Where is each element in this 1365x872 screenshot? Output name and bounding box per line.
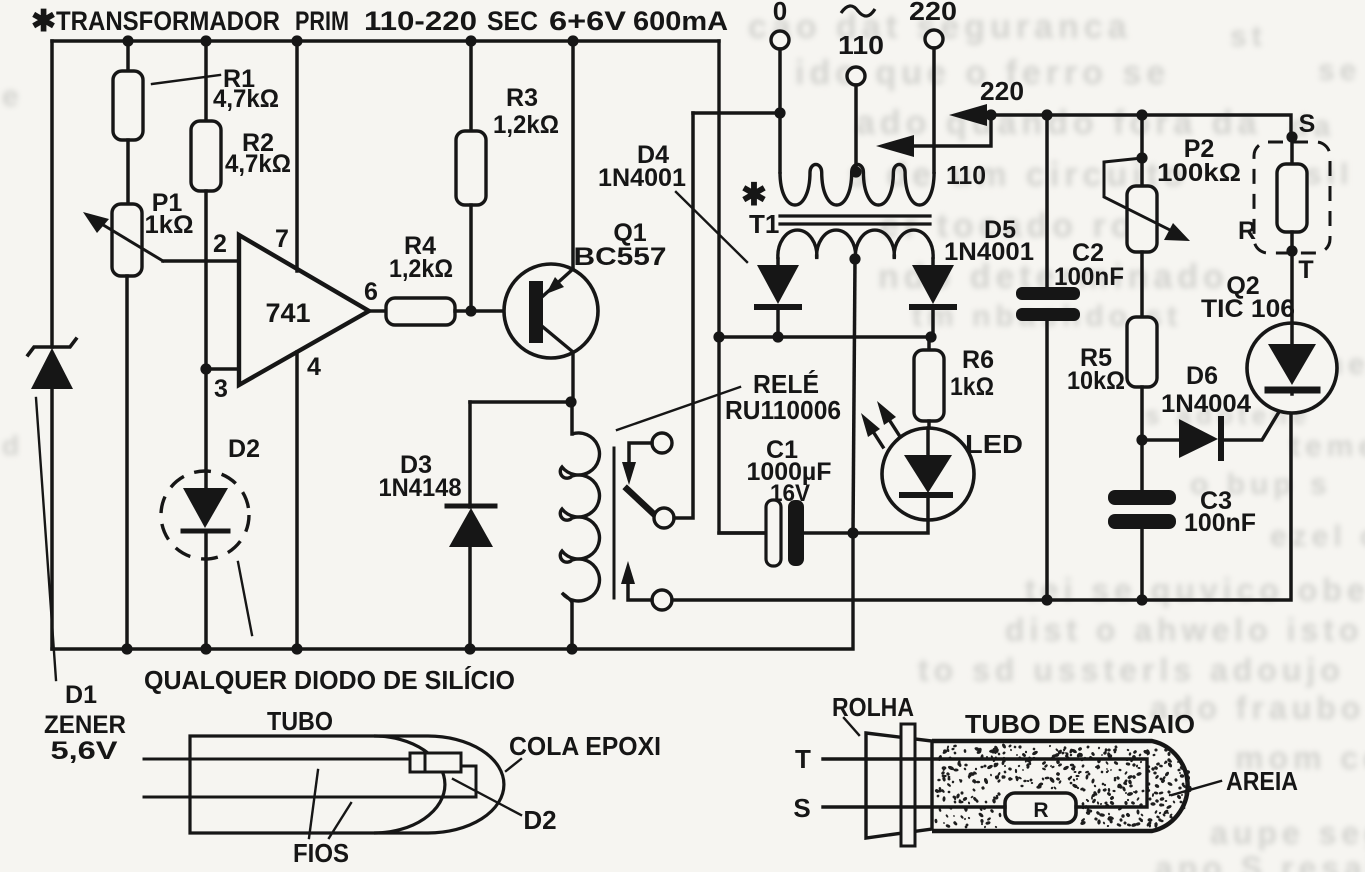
- wire S into tube: [823, 805, 1005, 808]
- svg-text:S: S: [793, 793, 810, 823]
- wire T into tube: [823, 759, 1147, 807]
- svg-text:RU110006: RU110006: [725, 395, 841, 425]
- relay contact common: [654, 508, 674, 528]
- cork (rolha): [866, 733, 932, 838]
- svg-text:100kΩ: 100kΩ: [1157, 159, 1241, 187]
- transformer T1 terminal 220: [925, 30, 943, 48]
- wire: left branch (D1) bottom: [50, 389, 54, 649]
- op-amp U1 741: [239, 235, 369, 385]
- relay contact top: [652, 433, 672, 453]
- wire: left branch (D1) top: [50, 41, 54, 347]
- SCR Q2 TIC106: [1247, 323, 1337, 413]
- svg-text:QUALQUER DIODO DE SILÍCIO: QUALQUER DIODO DE SILÍCIO: [144, 665, 515, 695]
- relay armature bar: [613, 448, 616, 598]
- capacitor C2 100nF: [1045, 115, 1049, 292]
- wire: +V down to rectifier output node: [719, 41, 766, 533]
- relay blade: [627, 489, 658, 518]
- transformer T1 terminal 0: [771, 31, 789, 49]
- svg-text:6+6V: 6+6V: [549, 6, 626, 36]
- diode D3 1N4148: [470, 400, 571, 404]
- svg-text:R3: R3: [506, 84, 538, 112]
- svg-text:S: S: [1299, 110, 1316, 138]
- title: transformer note: [31, 5, 728, 38]
- Q1 emitter: [543, 269, 573, 296]
- resistor R2: [204, 41, 208, 121]
- svg-text:110-220: 110-220: [364, 6, 477, 36]
- decorative bleed-through (not labelled components): [748, 8, 1132, 47]
- node S: [1286, 131, 1297, 142]
- test tube: outline: [932, 741, 1188, 831]
- svg-text:4,7kΩ: 4,7kΩ: [225, 150, 291, 178]
- svg-text:1N4001: 1N4001: [598, 164, 686, 192]
- svg-text:R: R: [1238, 217, 1256, 245]
- svg-text:100nF: 100nF: [1054, 263, 1124, 291]
- wire: rectifier cathode rail: [719, 335, 931, 338]
- svg-text:10kΩ: 10kΩ: [1067, 367, 1125, 395]
- svg-text:ZENER: ZENER: [44, 711, 126, 739]
- svg-text:TUBO DE ENSAIO: TUBO DE ENSAIO: [965, 709, 1195, 739]
- wire: top +V rail: [52, 39, 719, 42]
- svg-text:R: R: [1033, 799, 1048, 822]
- svg-text:BC557: BC557: [574, 243, 667, 271]
- label AREIA: [1172, 781, 1221, 795]
- svg-text:D1: D1: [65, 681, 97, 709]
- svg-text:1,2kΩ: 1,2kΩ: [389, 255, 453, 283]
- svg-text:1N4001: 1N4001: [944, 238, 1034, 266]
- svg-text:1kΩ: 1kΩ: [145, 211, 194, 239]
- svg-text:1kΩ: 1kΩ: [950, 373, 994, 401]
- svg-text:R6: R6: [962, 346, 994, 374]
- tube drawing: body: [190, 736, 504, 833]
- capacitor C1 1000uF: [719, 531, 766, 535]
- relay coil K1: [570, 402, 574, 434]
- transistor Q1 BC557: [504, 264, 598, 358]
- label FIOS: [309, 770, 318, 838]
- wire: 0 terminal to relay: [693, 111, 780, 115]
- transformer T1 core: [780, 214, 930, 217]
- transformer T1 secondary winding: [778, 230, 933, 259]
- svg-text:0: 0: [773, 0, 787, 26]
- tube wires: [144, 758, 407, 761]
- label COLA EPOXI: [506, 759, 521, 771]
- svg-text:1N4004: 1N4004: [1161, 390, 1251, 418]
- LED light arrows: [874, 433, 883, 447]
- sensor resistor R (dashed box): [1254, 142, 1330, 253]
- wire: pin 3 input: [206, 367, 239, 371]
- diode D5 1N4001: [931, 259, 935, 266]
- svg-text:T1: T1: [749, 209, 779, 239]
- svg-text:D2: D2: [228, 435, 260, 463]
- tube diode D2: [410, 753, 425, 772]
- wire: pin 6 output: [369, 309, 386, 313]
- svg-text:5,6V: 5,6V: [51, 737, 118, 765]
- sensor resistor R in tube: [1005, 793, 1076, 823]
- svg-text:600mA: 600mA: [633, 6, 728, 36]
- svg-text:110: 110: [838, 30, 884, 60]
- svg-text:AREIA: AREIA: [1226, 766, 1298, 796]
- resistor R5 10k: [1127, 317, 1157, 387]
- LED indicator: [882, 428, 974, 520]
- label R1 4,7k: [152, 75, 220, 84]
- svg-text:FIOS: FIOS: [293, 838, 349, 868]
- svg-text:✱: ✱: [31, 5, 56, 38]
- wire: common contact to mains 0: [674, 113, 693, 518]
- node T: [1286, 245, 1297, 256]
- svg-text:100nF: 100nF: [1184, 509, 1256, 537]
- label ROLHA: [844, 718, 859, 735]
- wire: bottom 0V rail: [52, 533, 853, 649]
- wire: pin 4 supply: [295, 352, 299, 649]
- P1 wiper arrow: [95, 220, 163, 261]
- resistor R3: [469, 41, 473, 131]
- svg-text:4: 4: [307, 353, 321, 381]
- svg-text:TRANSFORMADOR: TRANSFORMADOR: [56, 6, 280, 36]
- resistor R1: [126, 41, 130, 71]
- wire: 110 selection arrow: [905, 115, 991, 146]
- wire: 220 selection arrow: [975, 115, 1291, 137]
- svg-text:T: T: [795, 744, 811, 774]
- resistor R4: [386, 298, 455, 325]
- P2 wiper arrow: [1104, 158, 1178, 234]
- svg-text:T: T: [1298, 256, 1313, 284]
- label D1 ZENER 5,6V: [36, 398, 56, 680]
- capacitor C3 100nF: [1108, 490, 1176, 505]
- wire: pin 2 input: [163, 259, 239, 263]
- label RELE RU110006: [617, 387, 740, 430]
- svg-text:1,2kΩ: 1,2kΩ: [493, 111, 559, 139]
- wire: secondary center tap to 0V: [853, 259, 855, 533]
- wire: NO contact to output line: [672, 394, 1291, 600]
- Q1 collector: [543, 327, 573, 402]
- svg-text:16V: 16V: [770, 480, 810, 507]
- diode D4 1N4001: [776, 259, 780, 266]
- svg-text:2: 2: [213, 230, 227, 258]
- svg-text:3: 3: [214, 375, 228, 403]
- svg-text:220: 220: [980, 76, 1024, 106]
- svg-text:D6: D6: [1186, 362, 1218, 390]
- svg-text:741: 741: [265, 298, 310, 328]
- zener diode D1: [31, 348, 73, 389]
- svg-text:7: 7: [275, 225, 289, 253]
- test tube: sand stipple: [1097, 746, 1100, 749]
- transformer T1 terminal 110: [847, 67, 865, 85]
- diode D2 (sensor, dashed circle): [161, 471, 249, 559]
- relay contact bottom: [652, 590, 672, 610]
- svg-text:6: 6: [364, 278, 378, 306]
- svg-text:PRIM: PRIM: [295, 6, 349, 36]
- svg-text:TUBO: TUBO: [267, 706, 333, 736]
- svg-text:✱: ✱: [741, 177, 767, 212]
- label D2 (tube): [453, 779, 521, 815]
- resistor R6 1k: [927, 337, 931, 350]
- potentiometer P1: [112, 204, 142, 276]
- transformer T1 primary winding: [780, 164, 934, 205]
- potentiometer P2 100k: [1140, 115, 1144, 186]
- svg-text:TIC 106: TIC 106: [1201, 295, 1295, 323]
- wire: pin 7 supply: [295, 41, 299, 271]
- svg-text:220: 220: [909, 0, 957, 26]
- svg-text:110: 110: [946, 160, 986, 190]
- svg-text:COLA EPOXI: COLA EPOXI: [509, 731, 661, 761]
- svg-text:1N4148: 1N4148: [379, 474, 462, 502]
- svg-text:SEC: SEC: [487, 6, 538, 36]
- diode D6 1N4004: [1142, 438, 1181, 442]
- svg-text:D2: D2: [523, 805, 556, 835]
- svg-text:ROLHA: ROLHA: [832, 692, 914, 722]
- svg-text:LED: LED: [965, 429, 1023, 459]
- svg-text:4,7kΩ: 4,7kΩ: [213, 85, 279, 113]
